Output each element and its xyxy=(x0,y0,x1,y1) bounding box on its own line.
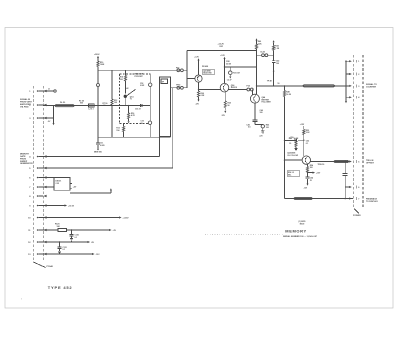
wire pin13 supply xyxy=(43,253,100,256)
svg-text:CH. FOLLOW: CH. FOLLOW xyxy=(287,155,298,157)
connector pin 2 xyxy=(29,104,46,107)
resistor R16 below wire xyxy=(128,105,136,124)
svg-text:SIGNAL TO: SIGNAL TO xyxy=(366,83,377,86)
bias line with trimmer R30 xyxy=(224,61,257,81)
Q34 collector to +12V xyxy=(220,55,225,84)
connector P1040 dashed line right xyxy=(42,86,44,262)
wire pin7 into box xyxy=(43,186,54,188)
node vertical x346 with off-sheet arrow xyxy=(345,60,349,103)
svg-text:1.2 uF: 1.2 uF xyxy=(227,79,232,81)
resistor R13 below box xyxy=(116,124,124,138)
svg-text:TP 48: TP 48 xyxy=(267,80,272,83)
connector pin 7 xyxy=(29,186,46,189)
svg-text:DL50: DL50 xyxy=(261,52,265,54)
label 50 ohm near node xyxy=(103,103,108,107)
wire pin6 to lamp box xyxy=(43,177,54,179)
svg-text:FOLLOWER: FOLLOWER xyxy=(262,101,272,103)
connector pin 1 xyxy=(29,90,46,93)
resistor R49 to ground xyxy=(284,137,299,151)
main vertical +12V branch with resistor R40 xyxy=(255,38,262,94)
right connector pin 1 xyxy=(349,60,360,63)
cable symbol on output line xyxy=(303,85,335,87)
main signal output line xyxy=(256,80,349,87)
svg-text:VIA P940: VIA P940 xyxy=(20,105,29,108)
label block signal in from vertical amplifier xyxy=(20,98,33,108)
Q24 emitter resistor R24 to -12V xyxy=(195,82,205,105)
resistor R2 series box on signal line xyxy=(79,101,94,111)
plug pair branch top xyxy=(257,52,274,57)
right connector pin 7 xyxy=(349,197,360,200)
capacitor C54 to -12V xyxy=(303,173,313,190)
svg-text:L2 0.1: L2 0.1 xyxy=(89,108,94,110)
svg-text:0.005: 0.005 xyxy=(100,145,105,147)
label trig in offset xyxy=(366,160,375,165)
resistor R14 inside box xyxy=(120,70,127,93)
wire pin12 with capacitor C121 xyxy=(43,241,95,254)
svg-text:+1.36V: +1.36V xyxy=(123,217,130,219)
feedback divider resistor R48 xyxy=(283,85,291,198)
svg-text:16.3K: 16.3K xyxy=(286,94,291,96)
right connector pin 5 xyxy=(349,160,360,163)
+300V supply feed with resistor R10 xyxy=(94,54,105,70)
svg-text:100K: 100K xyxy=(100,64,105,66)
QD supply chain resistor R52 capacitor C52 xyxy=(289,124,310,156)
right connector pin 4 xyxy=(349,96,360,99)
wire inside box horizontal xyxy=(120,105,151,107)
svg-text:GENERATOR: GENERATOR xyxy=(20,162,33,165)
connector pin 13 xyxy=(28,253,47,256)
right connector dashed line right xyxy=(362,55,364,209)
connector P1040 bottom diagonal xyxy=(33,262,45,268)
resistor R120 on pin11 wire xyxy=(43,224,117,241)
wire pin5 feedback return xyxy=(43,167,173,169)
wire pin10 supply xyxy=(43,216,129,219)
svg-text:TO DISPLAY: TO DISPLAY xyxy=(366,200,378,203)
svg-text:MEMORY: MEMORY xyxy=(285,228,306,233)
transistor Q14 pickoff xyxy=(124,88,136,105)
svg-text:27: 27 xyxy=(141,123,143,125)
node vertical x345 with capacitor C58 xyxy=(343,161,350,200)
svg-text:0.022: 0.022 xyxy=(140,85,144,87)
svg-text:33: 33 xyxy=(310,180,312,182)
lower rail xyxy=(98,136,171,138)
connector pin 10 xyxy=(28,216,47,219)
Q54 emitter resistor R54 xyxy=(306,164,313,173)
svg-text:TRIG 50: TRIG 50 xyxy=(318,164,325,166)
wire pin9 supply xyxy=(43,204,75,207)
Q54 output line to offset pin xyxy=(310,162,349,167)
transistor Q44 output emitter follower xyxy=(250,94,271,103)
svg-text:POWER: POWER xyxy=(353,215,361,217)
svg-text:2N2219: 2N2219 xyxy=(231,87,237,89)
svg-text:M109: M109 xyxy=(300,223,305,225)
wire pin4 to TP shield xyxy=(43,156,160,158)
serial number note xyxy=(283,235,318,238)
svg-text:DR 498: DR 498 xyxy=(202,65,208,68)
connector pin 9 xyxy=(29,204,46,207)
svg-text:+12V: +12V xyxy=(300,124,305,126)
svg-text:2 W: 2 W xyxy=(56,183,60,185)
svg-text:100: 100 xyxy=(266,127,269,129)
svg-text:900: 900 xyxy=(80,102,83,104)
feedthrough capacitor C18 top xyxy=(140,74,152,137)
Q44 emitter network trimmer R46 xyxy=(246,103,269,137)
resistor R12 branch xyxy=(111,70,117,137)
connector P1040 dashed line left xyxy=(32,86,34,262)
capacitor C16 on wire xyxy=(135,104,142,111)
svg-text:Q24 4898: Q24 4898 xyxy=(203,70,210,73)
right connector pin 2 xyxy=(349,73,360,76)
label block memory gate from sweep xyxy=(20,154,33,166)
arrow tap +10V xyxy=(308,172,322,175)
title TYPE 452 xyxy=(48,285,73,290)
transistor Q54 voltage follower xyxy=(287,151,310,164)
branch resistor R42 capacitor C42 xyxy=(272,40,280,86)
supply rail +12V xyxy=(98,69,187,71)
svg-text:100: 100 xyxy=(120,79,123,81)
svg-text:100: 100 xyxy=(310,167,313,169)
svg-text:SERIAL NUMBER 100 — 1,234 & U: SERIAL NUMBER 100 — 1,234 & UP xyxy=(283,235,318,238)
connector pin 12 xyxy=(28,241,47,244)
dotted leader line xyxy=(205,234,283,236)
TP shield enclosure xyxy=(160,77,171,137)
transistor Q24 emitter follower A xyxy=(195,65,215,82)
Q24 collector to +12V xyxy=(194,57,199,75)
svg-text:DL 50: DL 50 xyxy=(60,102,65,104)
transistor Q34 emitter follower B xyxy=(220,83,237,92)
label signal to counter xyxy=(366,83,377,89)
wire signal line from pin2 xyxy=(43,105,150,107)
cable symbol on feedback wire xyxy=(294,197,313,199)
wire pin3 stub xyxy=(43,106,55,126)
svg-text:+300V: +300V xyxy=(94,54,100,56)
svg-text:50: 50 xyxy=(104,105,106,107)
Q54 base feed from divider xyxy=(284,159,302,160)
svg-text:R31 1M: R31 1M xyxy=(233,72,240,74)
connector pin 3 xyxy=(29,117,46,120)
TP shield left lead down to pin4 xyxy=(159,137,161,157)
connector pin 6 xyxy=(29,176,46,179)
svg-text:30: 30 xyxy=(289,143,291,145)
svg-text:56: 56 xyxy=(228,105,230,107)
Q34 emitter resistor R34 xyxy=(221,92,231,117)
connector pin 11 xyxy=(28,229,46,232)
wire pin1 stub with jack J1 xyxy=(43,88,56,92)
svg-text:PICKOFF: PICKOFF xyxy=(135,76,144,78)
svg-text:MEM SIG: MEM SIG xyxy=(94,152,102,154)
svg-text:P34: P34 xyxy=(247,84,250,87)
svg-text:J1: J1 xyxy=(48,88,50,90)
svg-text:FEEDBACK: FEEDBACK xyxy=(366,197,378,200)
svg-text:0.1: 0.1 xyxy=(63,249,66,251)
svg-text:40.5K: 40.5K xyxy=(226,62,231,65)
wire pin5 riser xyxy=(172,88,174,168)
label mod block xyxy=(299,221,307,226)
svg-text:0.1: 0.1 xyxy=(306,143,309,145)
stray tick mark xyxy=(21,296,22,300)
svg-text:EMITTER: EMITTER xyxy=(262,99,270,101)
right connector pin 6 xyxy=(349,186,360,189)
title MEMORY xyxy=(285,228,306,233)
svg-text:C16 27: C16 27 xyxy=(135,109,141,111)
feedthrough capacitor C19 bottom xyxy=(141,121,152,125)
right connector bottom diagonal POWER xyxy=(353,209,361,218)
riser to QA base xyxy=(187,50,195,87)
capacitor C44 label xyxy=(260,109,263,114)
lamp box B101 xyxy=(54,178,77,191)
feedback bottom wire xyxy=(285,198,354,200)
svg-text:T1: T1 xyxy=(130,99,132,101)
svg-text:5.6: 5.6 xyxy=(248,127,251,129)
svg-text:OFFSET: OFFSET xyxy=(366,162,375,164)
svg-text:+C50: +C50 xyxy=(289,137,293,139)
supply rail +12.2V xyxy=(187,44,257,51)
delay cable symbol on signal line xyxy=(55,102,75,107)
wire lamp box output xyxy=(70,188,112,193)
svg-text:+12V: +12V xyxy=(194,57,199,59)
svg-text:TYPE 452: TYPE 452 xyxy=(48,285,73,290)
plug pair to Q44 base xyxy=(247,84,254,95)
label P1040 xyxy=(47,265,54,268)
svg-text:+10.5V: +10.5V xyxy=(68,205,75,207)
svg-text:P50: P50 xyxy=(176,67,179,69)
svg-text:P1040: P1040 xyxy=(47,265,54,268)
svg-text:SEL: SEL xyxy=(288,174,291,176)
plug pair on trigger line xyxy=(171,85,187,90)
svg-text:100: 100 xyxy=(276,63,279,65)
right connector pin 3 xyxy=(349,85,360,88)
right connector dashed line left xyxy=(352,55,354,209)
svg-text:+12V: +12V xyxy=(220,55,225,57)
svg-text:SELECTED: SELECTED xyxy=(203,73,212,75)
svg-text:50: 50 xyxy=(278,83,280,85)
svg-text:0.1: 0.1 xyxy=(75,237,78,239)
svg-text:COUNTER: COUNTER xyxy=(366,87,376,89)
label feedback to signal xyxy=(366,197,378,203)
svg-text:100: 100 xyxy=(260,112,263,114)
dashed box trigger pickoff xyxy=(120,74,151,124)
connector pin 8 xyxy=(29,195,46,198)
connector pin 4 xyxy=(29,155,46,158)
selected value box R56 xyxy=(287,171,300,177)
cable symbol on offset line xyxy=(334,160,349,162)
wire Q24 emitter to Q34 base xyxy=(199,89,253,91)
svg-text:Q54 4898: Q54 4898 xyxy=(287,151,295,154)
svg-text:TP50: TP50 xyxy=(176,85,180,87)
connector pin 5 xyxy=(29,167,46,170)
plug pair on supply rail xyxy=(176,67,183,71)
svg-text:100: 100 xyxy=(114,102,117,104)
node x98 lower branch with capacitor C11 xyxy=(94,70,105,153)
svg-text:154: 154 xyxy=(116,129,119,132)
